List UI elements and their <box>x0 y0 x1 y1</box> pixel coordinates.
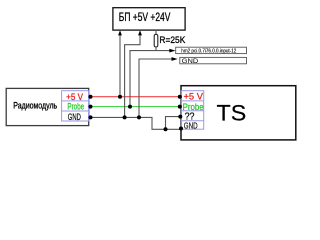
radio module box <box>6 88 89 125</box>
wire Probe riser to hm2 input <box>130 51 171 107</box>
TS pin table <box>181 91 204 130</box>
junction GND riser PSU <box>123 115 127 119</box>
node TS ?? <box>178 115 182 119</box>
svg-text:GND: GND <box>68 112 81 122</box>
resistor R1 R=25K <box>154 30 186 51</box>
junction +5V riser <box>118 95 122 99</box>
hm2 input pin box <box>176 47 247 54</box>
svg-text:hm2 pci.0.7i76.0.0.input-12: hm2 pci.0.7i76.0.0.input-12 <box>181 49 236 55</box>
power supply box BP +5V +24V <box>113 8 185 30</box>
wire GND riser to PSU <box>125 35 140 118</box>
wire ?? to GND <box>166 117 181 130</box>
svg-text:R=25K: R=25K <box>159 35 185 46</box>
node TS GND <box>179 127 183 131</box>
arrow into PSU 1 <box>118 30 122 35</box>
junction Probe riser <box>128 105 132 109</box>
svg-text:Радиомодуль: Радиомодуль <box>13 100 57 110</box>
GND pin box <box>180 57 247 65</box>
TS box <box>181 86 296 140</box>
arrow into GND box <box>172 57 178 61</box>
wire +5V red <box>91 96 180 98</box>
arrow into PSU 2 <box>138 30 142 35</box>
svg-text:БП +5V +24V: БП +5V +24V <box>119 10 171 24</box>
junction GND riser box <box>137 115 141 119</box>
node TS Probe <box>178 105 182 109</box>
node radio +5V <box>89 95 93 99</box>
wire GND riser to GND box <box>139 59 173 117</box>
wire +5V riser to PSU <box>119 35 121 97</box>
radio module pin table <box>62 91 89 121</box>
node radio Probe <box>89 105 93 109</box>
svg-text:Probe: Probe <box>183 102 204 112</box>
wire Probe green <box>91 106 180 108</box>
svg-text:TS: TS <box>217 100 247 125</box>
svg-text:GND: GND <box>184 121 198 131</box>
svg-text:+5 V: +5 V <box>184 92 203 102</box>
svg-text:GND: GND <box>182 58 199 65</box>
wire GND bus <box>91 117 181 129</box>
arrow into hm2 box <box>169 49 175 53</box>
junction ?? to GND <box>164 127 168 131</box>
svg-text:Probe: Probe <box>67 101 84 111</box>
node TS +5V <box>178 95 182 99</box>
node radio GND <box>89 115 93 119</box>
svg-text:+5 V: +5 V <box>66 92 83 102</box>
